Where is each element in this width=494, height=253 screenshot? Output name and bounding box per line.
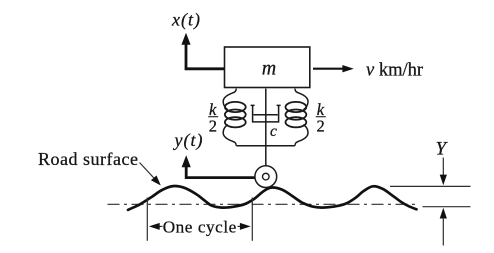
svg-text:Road surface: Road surface [38,149,138,169]
svg-text:One cycle: One cycle [163,217,237,236]
svg-text:c: c [270,123,277,140]
svg-text:m: m [262,58,276,80]
svg-text:v km/hr: v km/hr [366,61,423,81]
svg-text:2: 2 [209,117,217,136]
svg-text:y(t): y(t) [173,130,204,151]
svg-text:2: 2 [317,117,325,136]
svg-text:x(t): x(t) [171,10,201,31]
